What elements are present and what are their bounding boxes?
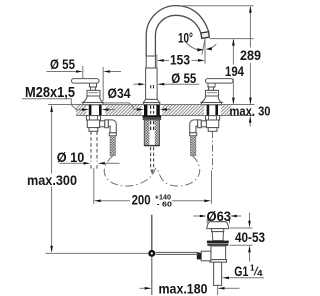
svg-text:max.300: max.300 xyxy=(27,173,77,188)
dim 194 xyxy=(210,39,254,105)
vertical centerline below ball xyxy=(151,257,153,295)
waste body xyxy=(211,246,226,260)
tailpipe xyxy=(214,262,222,285)
svg-text:Ø 10: Ø 10 xyxy=(57,149,85,165)
dim 289 xyxy=(183,6,261,105)
spout gooseneck tube xyxy=(146,6,208,56)
right valve centerline dash-dot xyxy=(212,131,214,170)
lift rod dashed through and below xyxy=(151,106,154,132)
right braided hose xyxy=(191,136,196,156)
lift rod tip xyxy=(151,170,154,176)
svg-text:Ø34: Ø34 xyxy=(108,85,131,101)
tail hex xyxy=(89,128,98,132)
upper tail xyxy=(212,232,223,241)
water flow vertical line xyxy=(204,39,206,64)
left valve lever xyxy=(72,79,104,105)
counter top line xyxy=(48,104,254,106)
dim max.30 arrow below counter xyxy=(249,116,252,127)
elbow xyxy=(108,120,116,133)
locknut xyxy=(86,116,100,120)
bottom cap xyxy=(210,260,227,263)
side port left xyxy=(201,251,211,261)
svg-text:153: 153 xyxy=(170,52,190,68)
valve body xyxy=(87,120,99,128)
ball joint xyxy=(148,250,155,257)
svg-text:- 60: - 60 xyxy=(157,200,172,209)
hatched slab segments xyxy=(76,105,231,115)
right tail hex xyxy=(208,128,217,132)
nipple (rod connection) dark xyxy=(197,253,201,260)
side port xyxy=(100,121,105,127)
svg-text:200: 200 xyxy=(132,192,151,208)
dim max.180 xyxy=(140,281,240,296)
spout vertical body xyxy=(143,56,159,105)
right valve body xyxy=(206,120,218,128)
left pull-rod dashed (Dia 10) xyxy=(91,131,97,168)
dim Dia63 xyxy=(194,208,242,224)
spout outlet nozzle xyxy=(201,32,209,33)
svg-text:Ø 55: Ø 55 xyxy=(50,56,75,72)
dim Dia55 center xyxy=(133,70,199,86)
right valve shank bars through counter xyxy=(207,105,210,116)
svg-text:40-53: 40-53 xyxy=(235,229,265,245)
spout locknut dark xyxy=(143,116,162,118)
svg-text:max.180: max.180 xyxy=(159,281,208,296)
right side port xyxy=(201,121,206,127)
counter bottom line xyxy=(76,115,254,117)
right hose loop xyxy=(157,156,199,186)
svg-text:4: 4 xyxy=(257,269,263,278)
svg-text:1: 1 xyxy=(250,264,255,273)
label M28x1,5 with leader xyxy=(22,85,116,111)
svg-text:Ø63: Ø63 xyxy=(207,208,232,224)
plug dome xyxy=(207,222,229,229)
spout shank bars through counter xyxy=(144,105,147,116)
dim Dia10 xyxy=(57,149,120,165)
left valve shank bars through counter xyxy=(89,105,92,116)
braided hose xyxy=(110,136,115,156)
svg-text:Ø 55: Ø 55 xyxy=(171,70,196,86)
label G1 1/4 xyxy=(222,263,264,279)
thin rod line left of ball xyxy=(46,252,149,254)
dim Dia55 left xyxy=(46,56,121,101)
svg-text:G1: G1 xyxy=(234,263,248,279)
rod marks inside spout body xyxy=(151,85,154,88)
neck xyxy=(212,229,224,232)
right valve xyxy=(201,79,233,105)
right elbow xyxy=(190,120,198,133)
dim 153 xyxy=(157,52,205,70)
right hose nut xyxy=(190,133,197,136)
dim max.300 xyxy=(27,105,77,253)
seal flange bands xyxy=(207,241,229,244)
threaded shank xyxy=(144,120,159,146)
svg-text:194: 194 xyxy=(225,63,244,79)
horizontal rod to waste (double line) xyxy=(156,251,200,253)
svg-text:10°: 10° xyxy=(178,29,193,45)
label Dia34 with dim to spout shank xyxy=(101,85,171,111)
svg-text:max. 30: max. 30 xyxy=(230,103,271,118)
right locknut xyxy=(206,116,220,120)
dim 40-53 xyxy=(230,213,266,262)
water flow 10deg line xyxy=(202,39,205,55)
left hose loop xyxy=(104,156,156,186)
hose nut xyxy=(109,133,116,136)
vertical link line above ball xyxy=(151,215,153,250)
dim 200 +140/-60 xyxy=(94,168,212,209)
svg-text:289: 289 xyxy=(240,47,261,63)
10deg angle arc xyxy=(185,41,216,50)
